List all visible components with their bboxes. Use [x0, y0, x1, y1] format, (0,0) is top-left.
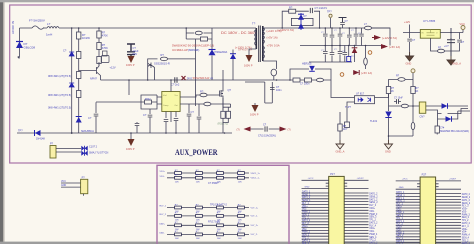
- wire P1 pin9R: [344, 204, 368, 206]
- diode D? blue on x79: [76, 117, 82, 123]
- cap value labels cluster: [321, 30, 361, 58]
- wire net row 4: [167, 215, 249, 217]
- svg-text:+VCC: +VCC: [308, 178, 314, 180]
- svg-text:TP1_2: TP1_2: [369, 220, 376, 222]
- wire P1 pin16L: [302, 224, 329, 226]
- wire P1 pin6R: [344, 195, 368, 197]
- svg-text:AC/DC IN: AC/DC IN: [11, 21, 15, 34]
- feedback divider top pad: [411, 69, 415, 73]
- connector J? bottom-left in sheet: [50, 146, 56, 159]
- svg-text:GND_A: GND_A: [336, 150, 345, 154]
- svg-text:DAT0_2: DAT0_2: [369, 193, 378, 196]
- svg-text:10K: 10K: [196, 181, 200, 183]
- cap C? below IC a: [164, 120, 169, 122]
- wire: aux winding second vertical x79: [78, 28, 80, 133]
- svg-text:GBLC08: GBLC08: [24, 46, 36, 50]
- svg-text:(+12V 0.7A): (+12V 0.7A): [382, 36, 397, 40]
- IC bottom pins: [166, 112, 176, 123]
- cap C? x325 row2: [324, 46, 326, 63]
- svg-text:PWM_4: PWM_4: [462, 235, 471, 237]
- svg-text:Comp: Comp: [163, 105, 169, 107]
- wire P1 pin22R: [344, 241, 368, 243]
- connector wires: [56, 149, 81, 153]
- orange pad circle a: [368, 51, 372, 55]
- resistor RN5A: [175, 222, 182, 231]
- resistor R? oval reg adj: [437, 49, 444, 53]
- primary bottom to net arrow: [249, 49, 256, 55]
- resistor R? oval near x164: [160, 57, 167, 61]
- output electrolytic C? x451: [447, 38, 455, 56]
- cap C? x332 row2: [331, 46, 333, 63]
- capacitor C? near TL431: [397, 99, 399, 104]
- svg-text:TP1_1: TP1_1: [396, 218, 403, 220]
- inductor L?: [47, 27, 59, 29]
- svg-text:DAT1_2: DAT1_2: [462, 199, 471, 202]
- ground rail y133: [17, 132, 232, 134]
- svg-text:+VDD?: +VDD?: [449, 179, 457, 181]
- svg-text:VD2-: VD2-: [396, 229, 401, 231]
- wire P2 pin5R: [436, 193, 461, 195]
- connector P1 body: [329, 176, 345, 244]
- wire clamp diode to drain: [211, 56, 213, 81]
- box outline above transistor: [102, 56, 110, 63]
- svg-text:160V P: 160V P: [250, 113, 259, 117]
- wire P1 pin12L: [302, 212, 329, 214]
- left gray edge strip: [0, 0, 3, 244]
- svg-text:0K8 4W1 (2T)(T0.5): 0K8 4W1 (2T)(T0.5): [48, 106, 71, 110]
- wire P1 pin17L: [302, 227, 329, 229]
- svg-text:1K/2W: 1K/2W: [82, 36, 90, 40]
- wire UF4007: [232, 50, 234, 81]
- resistor RN4A: [175, 213, 182, 222]
- net arrow down 160V x255: [254, 103, 256, 105]
- svg-text:DAT3_2: DAT3_2: [462, 222, 471, 225]
- wire P1 pin9L: [302, 204, 329, 206]
- svg-text:4K7: 4K7: [343, 128, 348, 131]
- cap C? left low x96: [95, 102, 97, 113]
- svg-text:RLY_3: RLY_3: [462, 206, 469, 208]
- cap C? x345 row2: [344, 46, 346, 63]
- wire P2 pin20R: [436, 236, 461, 238]
- cap C? x356: [355, 28, 357, 46]
- IC right pin wires: [180, 97, 230, 104]
- svg-text:0K8 4W1 (2T)(T0.5): 0K8 4W1 (2T)(T0.5): [48, 74, 71, 78]
- svg-text:RLY_2: RLY_2: [396, 224, 403, 226]
- resistor R? x79 fourth: [77, 91, 81, 98]
- wire P1 pin10R: [344, 206, 368, 208]
- svg-text:TLP?: TLP?: [345, 106, 352, 109]
- svg-text:TP1_2: TP1_2: [462, 220, 469, 222]
- svg-text:SEN0_1: SEN0_1: [302, 194, 311, 196]
- wire net row 1: [167, 172, 249, 174]
- svg-text:DAT3_1: DAT3_1: [396, 220, 405, 223]
- small connector CN? right mid: [419, 102, 426, 113]
- svg-text:SEN1_2: SEN1_2: [369, 202, 378, 204]
- cap C? x332: [331, 28, 333, 46]
- svg-text:C? PWR?: C? PWR?: [208, 182, 219, 185]
- svg-text:SEN0_2: SEN0_2: [369, 197, 378, 199]
- svg-text:SEN_2: SEN_2: [396, 235, 404, 237]
- blue diode HER105 vertical x312: [309, 66, 315, 71]
- net arrow down 160V under transformer: [246, 55, 253, 62]
- svg-text:CN?: CN?: [420, 116, 426, 119]
- wire P2 pin21L: [396, 239, 420, 241]
- maroon diode D? x354: [352, 48, 358, 53]
- svg-text:SEN_1: SEN_1: [396, 215, 404, 217]
- resistor RN1A: [175, 170, 182, 179]
- wire P2 pin22L: [396, 242, 420, 244]
- wire P2 pin10L: [396, 207, 420, 209]
- svg-text:(+120V 0.7A): (+120V 0.7A): [278, 28, 295, 32]
- wire P1 pin13L: [302, 215, 329, 217]
- svg-text:TP?: TP?: [18, 130, 23, 133]
- connector P? below sheet: [81, 179, 88, 193]
- resistor RN2D: [238, 175, 245, 184]
- resistor R? right of IC: [204, 102, 211, 106]
- secondary snubber loop top right: [282, 11, 319, 28]
- diode D? on x72 wire: [69, 52, 74, 56]
- electrolytic C? x342 top: [339, 18, 347, 23]
- wire P2 pin22R: [436, 242, 461, 244]
- svg-text:GND: GND: [305, 186, 310, 188]
- svg-text:U? 817: U? 817: [356, 93, 365, 96]
- wire P2 pin14L: [396, 219, 420, 221]
- wire P1 pin7R: [344, 198, 368, 200]
- resistor R? x79 third: [77, 72, 81, 79]
- svg-text:160V P: 160V P: [126, 147, 135, 151]
- resistor RN5D: [238, 222, 245, 231]
- wire x388 down to TL431: [388, 94, 390, 112]
- svg-text:VLY_2+: VLY_2+: [251, 225, 259, 227]
- svg-text:VD3-: VD3-: [462, 212, 467, 214]
- resistor RN2A: [175, 175, 182, 184]
- wire P1 pin18R: [344, 229, 368, 231]
- cap net row y129 left arrow: [244, 127, 251, 132]
- transistor Q? startup NPN: [97, 62, 101, 80]
- svg-text:C?: C?: [63, 49, 67, 53]
- resistor R? oval on y79: [398, 78, 405, 82]
- cap C? x340: [339, 28, 341, 46]
- maroon diode D? x356 lower with arrow: [353, 70, 359, 75]
- diode D? blue right b: [446, 116, 452, 122]
- svg-text:C?: C?: [88, 116, 92, 120]
- svg-text:P2?: P2?: [422, 173, 427, 177]
- svg-text:SMAJ58CA: SMAJ58CA: [81, 130, 94, 133]
- svg-text:VLY_1+: VLY_1+: [251, 207, 259, 209]
- wire bottom joining x413: [389, 135, 414, 137]
- svg-text:DAT-: DAT-: [160, 232, 165, 235]
- svg-text:10K: 10K: [238, 181, 242, 183]
- svg-text:DAT3_1: DAT3_1: [302, 219, 311, 222]
- svg-text:(xx) SSS2S01S-R xx: (xx) SSS2S01S-R xx: [187, 76, 214, 80]
- wire P1 pin18L: [302, 229, 329, 231]
- resistor R? box clamp: [201, 37, 208, 41]
- TVS diode D? input: [16, 42, 23, 49]
- resistor RN3B: [196, 204, 203, 213]
- cap C? x137: [136, 122, 138, 123]
- wire HER105 row y69: [290, 69, 355, 98]
- wire P1 pin2 R: [344, 188, 368, 190]
- svg-text:DAT1_1: DAT1_1: [302, 196, 311, 199]
- svg-text:(+5V 1A): (+5V 1A): [361, 71, 372, 75]
- wire oval to CN: [389, 105, 420, 107]
- resistor R? box x388: [386, 87, 390, 94]
- svg-text:TP2_1: TP2_1: [396, 238, 403, 240]
- wire inductor right down: [372, 28, 390, 46]
- caps row2 between y45.5 and y62: [309, 61, 352, 63]
- svg-text:Q?: Q?: [228, 88, 232, 92]
- resistor RN6A: [175, 231, 182, 240]
- wire P1 pin20R: [344, 235, 368, 237]
- wire net row 3: [167, 207, 249, 209]
- wire P1 pin19L: [302, 232, 329, 234]
- svg-text:VD4-: VD4-: [369, 231, 374, 233]
- svg-text:R?(C To R): R?(C To R): [208, 220, 220, 223]
- wire net row 2: [167, 177, 249, 179]
- wire: aux winding left vertical x72: [71, 28, 73, 133]
- wire x129 from rail to RC: [128, 80, 130, 95]
- net arrow down 160V at x131: [128, 56, 135, 63]
- svg-text:(+5V 1A): (+5V 1A): [267, 36, 278, 40]
- box with cap x265-273: [245, 82, 272, 103]
- svg-text:VD4+: VD4+: [369, 228, 375, 230]
- svg-text:GND_A: GND_A: [452, 62, 461, 66]
- wire: startup chain x99: [98, 28, 100, 66]
- svg-text:PWM_3: PWM_3: [369, 214, 378, 216]
- capacitor C? row y129: [265, 126, 267, 131]
- pin stubs P2 top: [417, 184, 439, 187]
- PWM IC U? UC3842: [162, 92, 180, 112]
- svg-text:PWM_2: PWM_2: [396, 232, 405, 234]
- wire: input down left: [19, 28, 21, 57]
- svg-text:TP2_2: TP2_2: [462, 240, 469, 242]
- wire P1 pin13R: [344, 215, 368, 217]
- orange pad circle b: [340, 73, 344, 77]
- wire P1 pin14R: [344, 218, 368, 220]
- cap C? below IC b: [174, 119, 179, 121]
- svg-text:RLY_2: RLY_2: [302, 223, 309, 225]
- cap C? x150: [149, 109, 151, 114]
- resistor RN3A: [175, 204, 182, 213]
- wire P2 pin8R: [436, 201, 461, 203]
- regulator U? L7805: [420, 30, 440, 39]
- wire oval to drain vertical: [168, 39, 196, 106]
- secondary bottom wire: [263, 61, 277, 69]
- svg-text:HER105: HER105: [302, 63, 312, 66]
- wire P1 pin2 L: [302, 188, 329, 190]
- svg-text:160V P: 160V P: [244, 64, 253, 68]
- small box part right of chain: [103, 51, 108, 56]
- TL431 U? blue: [385, 112, 391, 118]
- wire P2 pin7L: [396, 198, 420, 200]
- resistor RN2B: [196, 175, 203, 184]
- svg-text:TP1_1: TP1_1: [302, 217, 309, 219]
- svg-text:GND: GND: [399, 187, 404, 189]
- divider chain x340 with resistor and ground: [339, 112, 341, 124]
- cap C? x199: [198, 104, 200, 116]
- svg-text:RLY_3: RLY_3: [369, 205, 376, 207]
- svg-text:C? 10nF: C? 10nF: [394, 98, 403, 100]
- top gray edge strip: [0, 0, 474, 2]
- svg-text:SEN_2: SEN_2: [302, 235, 310, 237]
- cap net row right arrow: [280, 127, 287, 132]
- svg-text:VD3+: VD3+: [462, 209, 468, 211]
- resistor RN4B: [196, 213, 203, 222]
- wire P2 pin9R: [436, 204, 461, 206]
- svg-text:RLY_1: RLY_1: [302, 203, 309, 205]
- svg-text:100n: 100n: [276, 89, 282, 92]
- resistor RN1B: [196, 170, 203, 179]
- wire sense to ground rail: [223, 98, 231, 133]
- svg-text:RLY_4: RLY_4: [462, 226, 469, 228]
- svg-text:1mH: 1mH: [46, 33, 52, 37]
- resistor R? x99 second: [97, 43, 101, 50]
- svg-text:160V P: 160V P: [126, 63, 135, 67]
- wire P1 pin19R: [344, 232, 368, 234]
- wire net row 6: [167, 233, 249, 235]
- wire P2 pin13L: [396, 216, 420, 218]
- svg-text:VD4-: VD4-: [462, 232, 467, 234]
- svg-text:1K: 1K: [415, 90, 418, 93]
- wire P1 pin1 R: [344, 179, 368, 181]
- wire pad down x413: [412, 73, 414, 136]
- wire regulator input: [403, 32, 420, 34]
- svg-text:VLY_1-: VLY_1-: [251, 216, 258, 218]
- svg-text:+12V: +12V: [404, 20, 410, 24]
- inner box dual diode: [291, 18, 313, 25]
- main sheet border AUX_POWER: [10, 5, 472, 163]
- dual diode D? blue vertical: [298, 14, 304, 20]
- svg-text:VDC1_1+: VDC1_1+: [251, 173, 261, 175]
- wire P1 pin7L: [302, 198, 329, 200]
- svg-text:SEN0_1: SEN0_1: [396, 195, 405, 197]
- svg-text:+VCC: +VCC: [402, 179, 408, 181]
- svg-text:470K: 470K: [102, 46, 108, 50]
- wire P2 pin2 R: [436, 188, 461, 190]
- svg-text:SEN_1: SEN_1: [302, 214, 310, 216]
- svg-text:GND: GND: [61, 185, 66, 187]
- diode D? UF4007 blue: [230, 54, 236, 59]
- svg-text:1N4148: 1N4148: [36, 138, 45, 141]
- svg-text:(?): (?): [237, 128, 240, 132]
- svg-text:DAT0_1: DAT0_1: [302, 190, 311, 193]
- transistor Q? small near x150: [148, 63, 155, 81]
- svg-text:VD1+: VD1+: [160, 171, 166, 173]
- diode D? on rail 1N4148: [35, 130, 41, 136]
- svg-text:PWM_4: PWM_4: [369, 234, 378, 236]
- wire P2 pin13R: [436, 216, 461, 218]
- wire reg in vertical x409.6: [409, 25, 411, 57]
- resistor R? oval clamp: [195, 31, 202, 35]
- ground GND left of regulator: [406, 52, 414, 61]
- wire P1 pin14L: [302, 218, 329, 220]
- startup electrolytic cap C? x131: [127, 44, 135, 56]
- gate wire: [186, 95, 220, 97]
- wire P1 pin8R: [344, 201, 368, 203]
- resistor R? oval vertical x413 low: [411, 122, 415, 129]
- wire P1 pin11R: [344, 209, 368, 211]
- svg-text:P6KE200A: P6KE200A: [215, 50, 228, 54]
- transformer core: [259, 26, 261, 63]
- wire P2 pin15L: [396, 221, 420, 223]
- svg-text:C? 1n/1KV: C? 1n/1KV: [315, 6, 328, 10]
- svg-text:SEN1_1: SEN1_1: [396, 201, 405, 203]
- resistor R? oval feed to CN: [401, 104, 408, 108]
- wire y79.4 connect: [389, 78, 414, 80]
- fuse F?: [32, 26, 44, 29]
- svg-text:PWM_2: PWM_2: [302, 232, 311, 234]
- output cap C? x459: [451, 33, 460, 52]
- wire P2 pin6L: [396, 196, 420, 198]
- resistor RN5C: [217, 222, 224, 231]
- svg-text:50V: 50V: [133, 52, 138, 56]
- primary return rail y80: [101, 79, 332, 81]
- svg-text:SEN1_2: SEN1_2: [462, 203, 471, 205]
- mosfet arrow detail: [222, 93, 224, 95]
- ground GND_A x340: [336, 140, 344, 149]
- junction x72 with label: [71, 132, 73, 134]
- svg-text:SEN1_1: SEN1_1: [302, 200, 311, 202]
- svg-text:+12V: +12V: [110, 66, 116, 70]
- wire P2 pin17R: [436, 227, 461, 229]
- svg-text:SEN0_2: SEN0_2: [462, 197, 471, 199]
- resistor R? blue box x348: [347, 57, 351, 62]
- resistor RN6B: [196, 231, 203, 240]
- wire P1 pin12R: [344, 212, 368, 214]
- resistor R? snubber: [289, 9, 296, 13]
- svg-text:GND: GND: [385, 150, 391, 154]
- svg-text:10K: 10K: [238, 238, 242, 240]
- svg-text:SEN_4: SEN_4: [462, 237, 470, 239]
- svg-text:DAT1_2: DAT1_2: [369, 198, 378, 201]
- svg-text:VD2+: VD2+: [302, 226, 308, 228]
- MOSFET Q?: [220, 70, 224, 110]
- base wire from x79: [79, 70, 97, 72]
- svg-text:VD2+: VD2+: [396, 227, 402, 229]
- resistor R? x99 third: [97, 57, 101, 64]
- input cap C? x409: [407, 39, 412, 41]
- wire: AC input top rail: [20, 27, 257, 29]
- oval L? on return rail: [316, 78, 323, 82]
- diode D? on x72 wire lower: [69, 83, 74, 87]
- svg-text:+C?: +C?: [444, 45, 449, 48]
- pad oval secondary: [271, 69, 277, 76]
- wire P1 pin22L: [302, 241, 329, 243]
- cap C? x189: [188, 104, 190, 113]
- svg-text:C?#: C?#: [440, 128, 445, 130]
- wire P1 pin17R: [344, 227, 368, 229]
- wire cap row: [251, 128, 280, 130]
- CN wires right: [426, 106, 470, 126]
- svg-text:DAT+: DAT+: [160, 223, 166, 226]
- svg-text:TP1/C? DAT?-2: TP1/C? DAT?-2: [210, 204, 227, 207]
- wire P1 pin8L: [302, 201, 329, 203]
- second sheet border (resistor networks): [157, 165, 289, 244]
- svg-text:UC3842-AP(60KHZ): UC3842-AP(60KHZ): [172, 48, 199, 52]
- wire P2 pin6R: [436, 196, 461, 198]
- wire P2 pin11L: [396, 210, 420, 212]
- wire P1 pin1 L: [302, 179, 329, 181]
- resistor RN5B: [196, 222, 203, 231]
- wire P2 pin12L: [396, 213, 420, 215]
- resistor R? x79 top: [77, 32, 81, 39]
- gate resistor R?: [200, 93, 207, 97]
- svg-text:+VDD?: +VDD?: [357, 178, 365, 180]
- svg-text:VD1+: VD1+: [302, 206, 308, 208]
- svg-text:Vcc: Vcc: [175, 95, 178, 97]
- svg-text:PWM_1: PWM_1: [396, 212, 405, 214]
- svg-text:NPN?: NPN?: [90, 77, 97, 81]
